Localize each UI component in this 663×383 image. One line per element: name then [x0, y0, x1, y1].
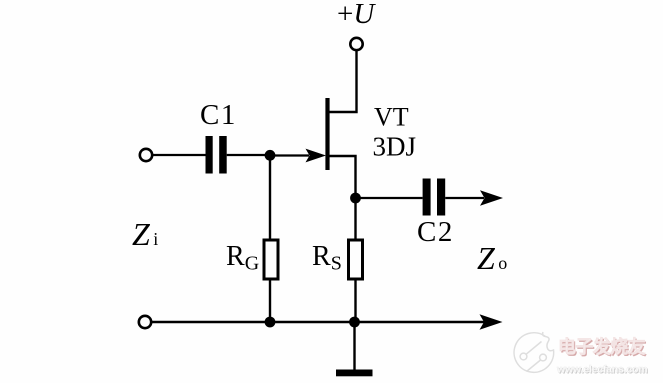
- wire RG to rail: [269, 279, 271, 322]
- svg-text:+U: +U: [337, 0, 376, 30]
- resistor RG: [264, 240, 278, 279]
- wire source node to C2: [356, 197, 423, 199]
- svg-text:电子发烧友: 电子发烧友: [558, 336, 646, 357]
- watermark text 电子发烧友: [558, 336, 647, 358]
- gate arrowhead into bar: [306, 149, 327, 163]
- wire input to C1: [153, 154, 206, 156]
- wire source node down to RS: [354, 198, 356, 240]
- svg-text:C2: C2: [417, 216, 454, 248]
- node RG rail junction: [265, 317, 276, 328]
- output arrowhead: [480, 190, 503, 205]
- watermark logo: [514, 332, 554, 372]
- capacitor C1: [206, 136, 227, 174]
- wire to ground: [353, 322, 355, 370]
- svg-text:C1: C1: [200, 99, 237, 131]
- rail arrowhead: [480, 314, 503, 329]
- node source junction: [350, 193, 361, 204]
- terminal input top: [140, 149, 152, 161]
- svg-text:www.elecfans.com: www.elecfans.com: [556, 364, 647, 376]
- wire bottom rail: [152, 321, 484, 323]
- terminal +U: [350, 38, 362, 50]
- transistor VT bar: [325, 98, 329, 170]
- ground: [336, 370, 373, 377]
- terminal input bottom: [139, 316, 151, 328]
- node gate junction: [265, 150, 276, 161]
- wire C1 to gate node: [227, 154, 270, 156]
- node RS rail junction: [349, 317, 360, 328]
- svg-text:VT: VT: [374, 103, 409, 132]
- capacitor C2: [423, 179, 446, 216]
- wire gate node down to RG: [269, 155, 271, 240]
- watermark text www.elecfans.com: [556, 364, 648, 377]
- wire RS to rail: [354, 279, 356, 322]
- wire gate node to arrow: [270, 154, 309, 156]
- resistor RS: [349, 240, 363, 279]
- wire C2 to output arrow: [445, 197, 484, 199]
- svg-text:3DJ: 3DJ: [373, 132, 417, 162]
- wire source lead: [328, 156, 356, 198]
- wire supply to drain: [327, 51, 357, 112]
